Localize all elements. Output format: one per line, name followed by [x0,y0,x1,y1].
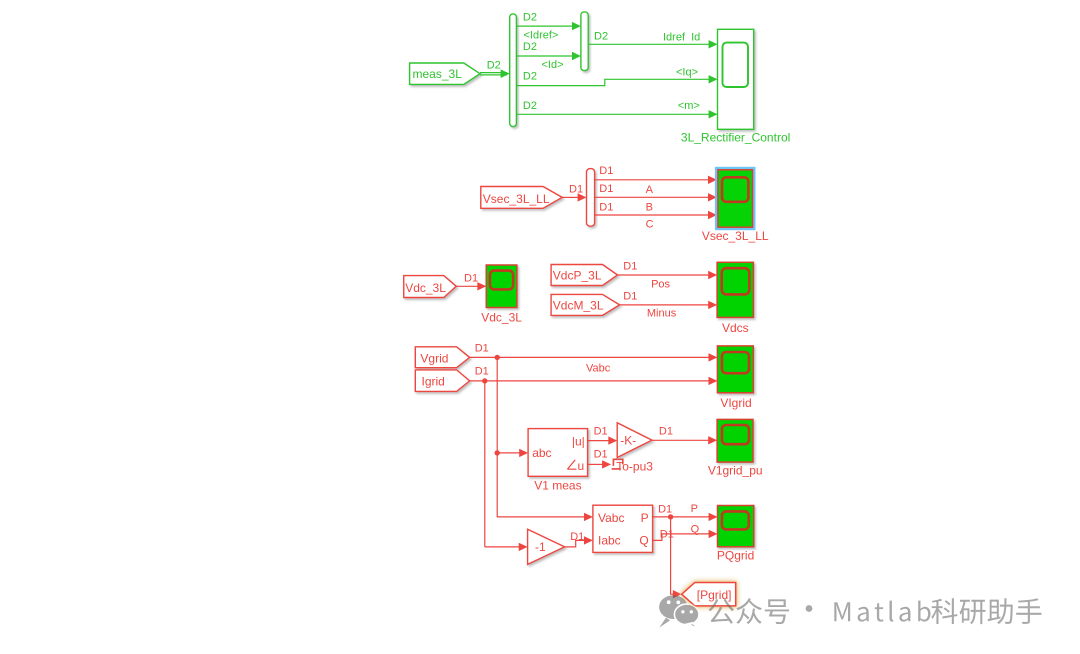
wire Igrid branch to gain -1 [485,546,519,548]
svg-text:P: P [691,503,698,515]
watermark glyph 众 [736,598,762,624]
watermark wechat logo small bubble eyes [681,610,684,613]
wire demux out3 with jog [516,79,709,85]
goto tag Pgrid (highlighted) [682,583,736,606]
junction node into V1 meas [495,450,500,455]
wire demux out2 [516,55,572,57]
arrowhead into mux in2 [572,52,581,60]
watermark glyph 科 [931,598,957,624]
selection highlight around scope Vsec_3L_LL [715,167,756,230]
svg-text:P: P [641,511,649,525]
wire angle-u to terminator [588,463,603,465]
svg-text:Idref Id: Idref Id [663,32,700,44]
wire Vsec_3L_LL to demux [562,196,578,198]
svg-text:u: u [578,459,585,473]
svg-text:-K-: -K- [620,434,636,448]
wire branch to V1 meas abc [497,452,519,454]
svg-text:D2: D2 [523,12,537,24]
wire Vgrid branch down [496,357,498,517]
svg-text:Vgrid: Vgrid [420,352,448,366]
watermark letter l [890,601,894,622]
wire demux out1 [516,25,572,27]
wire VdcM to Vdcs in2 [620,304,709,306]
svg-text:Vabc: Vabc [598,511,624,525]
svg-text:Q: Q [639,534,648,548]
scope screen [723,43,749,87]
from tag Igrid [415,370,469,392]
svg-text:PQgrid: PQgrid [717,548,754,562]
demux (red selector bar) [587,169,595,227]
svg-text:Vsec_3L_LL: Vsec_3L_LL [483,192,550,206]
svg-text:D2: D2 [594,31,608,43]
svg-text:<Id>: <Id> [542,59,564,71]
arrowhead into scope in2 [708,193,717,201]
watermark glyph 研 [960,600,986,624]
svg-text:D1: D1 [599,201,613,213]
svg-text:3L_Rectifier_Control: 3L_Rectifier_Control [681,131,790,145]
svg-text:D1: D1 [569,184,583,196]
svg-text:D1: D1 [659,426,673,438]
scope screen [722,177,748,202]
svg-text:<m>: <m> [678,100,700,112]
svg-text:D1: D1 [658,503,672,515]
svg-text:D1: D1 [594,426,608,438]
svg-text:Q: Q [691,523,700,535]
watermark glyph 公 [708,599,734,624]
arrowhead into scope in3 [709,110,718,118]
svg-text:VIgrid: VIgrid [720,396,751,410]
watermark wechat logo big bubble eyes [667,600,671,604]
wire demux outA [595,179,709,181]
svg-text:abc: abc [532,446,551,460]
arrowhead into goto Pgrid [673,590,682,598]
wire Igrid to scope VIgrid in2 [470,380,709,382]
wire gain to scope V1grid_pu [652,439,709,441]
watermark glyph 手 [1016,598,1041,624]
svg-text:D2: D2 [523,41,537,53]
watermark middle dot [806,605,813,612]
svg-text:V1 meas: V1 meas [534,478,581,492]
svg-text:D1: D1 [594,449,608,461]
arrowhead into V1grid_pu [708,436,717,444]
wire Vgrid to scope VIgrid in1 [470,356,709,358]
scope PQgrid (green filled) [718,506,754,547]
wire Vdc_3L to scope [456,285,478,287]
scope screen [722,268,750,294]
from tag VdcP_3L [551,265,617,286]
svg-text:D1: D1 [599,165,613,177]
svg-text:V1grid_pu: V1grid_pu [708,463,763,477]
svg-text:A: A [646,184,654,196]
arrowhead into abc [519,449,528,457]
scope screen [722,425,749,444]
wire mux out to scope in1 [588,43,709,45]
wire Q out with jog to scope PQgrid in2 [653,534,709,541]
arrowhead into gain -1 [519,543,528,551]
junction node P branch [668,514,673,519]
arrowhead into demux [578,193,587,201]
junction node Vgrid branch [495,355,500,360]
mux (green bar) [581,12,588,71]
watermark glyph 号 [765,599,789,624]
from tag Vsec_3L_LL [481,187,562,209]
arrowhead into Vabc [584,513,593,521]
scope Vsec_3L_LL (green filled) [718,170,753,227]
watermark letter a [899,607,910,622]
wire demux out4 [516,113,709,115]
svg-text:<Iq>: <Iq> [676,67,698,79]
block PQ measurement [593,505,653,552]
arrowhead into scope in1 [709,40,718,48]
svg-text:[Pgrid]: [Pgrid] [697,588,732,602]
wire bus meas_3L to demux (double line) [480,73,507,75]
svg-text:To-pu3: To-pu3 [616,460,653,474]
svg-text:D1: D1 [599,183,613,195]
svg-text:-1: -1 [535,540,546,554]
wire gain -1 to Iabc with jog [565,540,585,547]
svg-text:Vabc: Vabc [586,363,611,375]
svg-text:D2: D2 [487,60,501,72]
arrowhead into scope in1 [708,176,717,184]
scope screen [490,271,513,290]
scope screen [722,352,749,373]
svg-text:Igrid: Igrid [422,375,445,389]
arrowhead into scope Vdc_3L [477,282,486,290]
svg-text:D1: D1 [475,366,489,378]
svg-text:<Idref>: <Idref> [524,30,559,42]
arrowhead into Vdcs in1 [708,271,717,279]
svg-text:D1: D1 [623,291,637,303]
arrowhead into demux [501,69,510,78]
svg-text:Iabc: Iabc [598,534,621,548]
scope Vdc_3L (green filled) [486,265,517,308]
svg-text:meas_3L: meas_3L [413,67,463,81]
svg-text:Pos: Pos [651,279,670,291]
watermark glyph 助 [988,598,1013,624]
gain To-pu3 (-K-) [617,423,652,458]
from tag Vgrid [415,347,469,368]
wire Vgrid branch to Vabc input [497,516,584,518]
from tag meas_3L [410,63,480,84]
arrowhead into Iabc [584,536,593,544]
svg-text:D1: D1 [570,531,584,543]
arrowhead into gain [608,436,617,444]
wire VdcP to Vdcs in1 [618,274,709,276]
scope 3L_Rectifier_Control [718,29,754,129]
svg-text:Minus: Minus [647,308,677,320]
terminator block [612,459,623,469]
watermark letter a [858,607,869,622]
watermark wechat logo small bubble [674,604,699,629]
arrowhead into scope in3 [708,211,717,219]
svg-text:D1: D1 [464,273,478,285]
gain -1 [528,529,565,564]
arrowhead into PQgrid in2 [709,530,718,538]
svg-text:D1: D1 [475,343,489,355]
watermark letter b [918,601,930,622]
svg-text:|u|: |u| [572,435,585,449]
svg-text:C: C [646,218,654,230]
svg-text:D2: D2 [523,71,537,83]
wire demux outB [595,196,709,198]
svg-text:VdcM_3L: VdcM_3L [553,298,604,312]
arrowhead into VIgrid in2 [709,377,718,385]
block V1 meas [528,429,588,477]
svg-text:Vdc_3L: Vdc_3L [481,311,522,325]
wire demux outC [595,214,709,216]
svg-text:D1: D1 [623,261,637,273]
svg-text:Vdc_3L: Vdc_3L [405,281,446,295]
svg-text:Vsec_3L_LL: Vsec_3L_LL [702,229,769,243]
arrowhead into scope in2 [709,75,718,83]
svg-text:D1: D1 [660,528,674,540]
from tag Vdc_3L [404,276,457,298]
watermark letter M [834,602,850,621]
arrowhead into PQgrid in1 [709,513,718,521]
arrowhead into VIgrid in1 [709,353,718,361]
wire |u| to gain [588,440,609,442]
wire P out to scope PQgrid in1 [653,516,709,518]
scope VIgrid (green filled) [717,346,753,393]
svg-text:D2: D2 [523,100,537,112]
arrowhead into Vdcs in2 [708,301,717,309]
junction node Igrid branch [482,378,487,383]
watermark letter t [875,603,884,621]
watermark wechat logo big bubble [659,595,687,627]
scope screen [722,511,749,529]
wire P branch down to goto Pgrid [671,517,673,594]
port label angle u [567,460,576,469]
scope Vdcs (green filled) [717,262,753,317]
arrowhead into mux in1 [572,22,581,30]
svg-text:Vdcs: Vdcs [722,321,749,335]
wire Igrid branch down [484,381,486,547]
scope V1grid_pu (green filled) [717,419,753,462]
arrowhead into terminator [602,460,611,468]
from tag VdcM_3L [551,294,620,315]
svg-text:VdcP_3L: VdcP_3L [553,269,602,283]
demux D1 (green selector bar) [510,14,517,127]
svg-text:B: B [646,201,653,213]
